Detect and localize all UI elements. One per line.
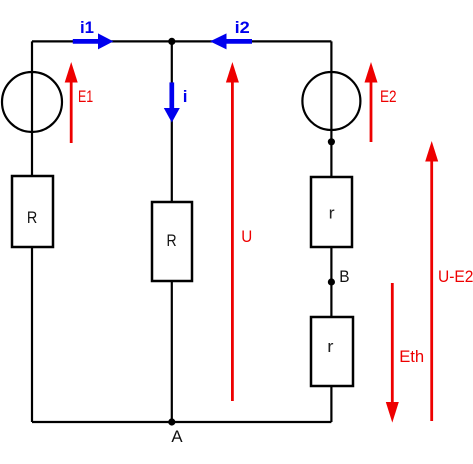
- svg-text:R: R: [27, 208, 37, 227]
- voltage arrow E2: [365, 62, 397, 142]
- svg-text:E1: E1: [78, 87, 93, 106]
- wire right branch: [330, 41, 332, 422]
- junction node top: [168, 38, 175, 45]
- wire middle branch: [171, 41, 173, 422]
- wire bottom: [32, 421, 331, 423]
- current arrow i2: [210, 18, 252, 49]
- current arrow i1: [73, 18, 114, 49]
- svg-text:Eth: Eth: [399, 347, 424, 366]
- resistor R (left): [12, 176, 53, 247]
- svg-text:r: r: [327, 337, 334, 356]
- voltage arrow U-E2: [425, 141, 473, 421]
- resistor r (lower right): [311, 317, 353, 386]
- svg-text:R: R: [167, 231, 177, 250]
- voltage arrow Eth: [386, 283, 424, 423]
- node B: [328, 278, 335, 285]
- node A: [168, 418, 175, 425]
- voltage arrow E1: [65, 62, 94, 143]
- source E1: [2, 72, 62, 132]
- junction below E2: [328, 138, 335, 145]
- svg-text:U-E2: U-E2: [438, 267, 473, 286]
- wire left branch: [31, 41, 33, 422]
- resistor R (middle): [152, 202, 192, 281]
- svg-text:i1: i1: [80, 18, 94, 37]
- svg-text:i2: i2: [235, 18, 250, 37]
- svg-text:r: r: [329, 204, 335, 223]
- source E2: [302, 72, 360, 130]
- svg-text:i: i: [183, 87, 188, 106]
- svg-text:B: B: [339, 267, 349, 286]
- svg-text:U: U: [241, 227, 252, 246]
- wire top: [32, 40, 331, 42]
- voltage arrow U: [226, 62, 252, 401]
- current arrow i: [164, 82, 188, 122]
- svg-text:E2: E2: [380, 87, 397, 106]
- svg-text:A: A: [171, 427, 183, 446]
- resistor r (upper right): [311, 177, 352, 247]
